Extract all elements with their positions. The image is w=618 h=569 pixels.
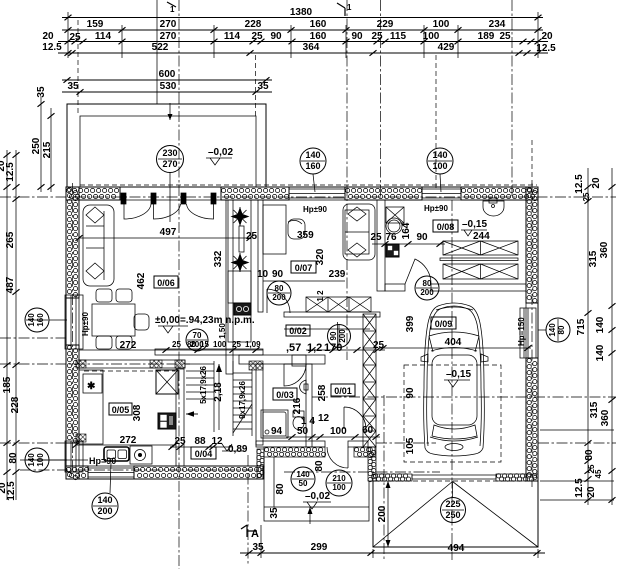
svg-text:140: 140: [548, 323, 557, 337]
svg-text:100: 100: [433, 19, 450, 30]
svg-text:25: 25: [172, 340, 181, 349]
svg-text:228: 228: [245, 19, 262, 30]
svg-text:100: 100: [36, 453, 45, 467]
interior wall bath west x256: [256, 364, 263, 445]
svg-text:0/06: 0/06: [157, 278, 175, 288]
svg-text:2,18: 2,18: [213, 382, 224, 402]
0/08 washer: [386, 207, 404, 223]
0/08 stove dark: [386, 244, 399, 257]
dining table: [92, 289, 149, 349]
left ticks top: [4, 152, 11, 158]
porch platform: [264, 456, 369, 521]
svg-text:–0,15: –0,15: [446, 369, 471, 380]
roof canopy rect: [373, 481, 538, 547]
plant top: [231, 207, 250, 226]
svg-text:229: 229: [377, 19, 394, 30]
right connector lines: [540, 429, 614, 431]
bath washbasin: [300, 380, 308, 394]
svg-text:170: 170: [324, 342, 342, 354]
row2 ticks: [65, 27, 72, 33]
svg-text:12: 12: [211, 436, 223, 447]
interior wall kitchen partition x226: [226, 200, 233, 374]
svg-text:0/02: 0/02: [289, 326, 307, 336]
svg-text:360: 360: [599, 241, 610, 258]
dim line y350 right part: [306, 349, 385, 351]
svg-text:5x17,9x26: 5x17,9x26: [199, 366, 208, 404]
svg-text:497: 497: [160, 227, 177, 238]
svg-text:225: 225: [445, 499, 460, 509]
axis horizontal y443 left: [0, 442, 66, 444]
svg-text:94: 94: [271, 426, 283, 437]
svg-text:234: 234: [489, 19, 506, 30]
svg-text:25: 25: [251, 31, 263, 42]
axis vertical x512: [511, 0, 513, 196]
window circle 140/160 left: [25, 308, 49, 332]
svg-text:270: 270: [162, 159, 177, 169]
svg-text:–0,02: –0,02: [208, 147, 233, 158]
window 140/160 in left wall: [65, 295, 83, 349]
svg-text:80: 80: [557, 325, 566, 334]
svg-text:308: 308: [132, 404, 143, 421]
axis horizontal y338 left: [0, 337, 66, 339]
interior wall corridor y329: [284, 328, 370, 330]
svg-text:0/09: 0/09: [435, 319, 453, 329]
kitchen dim 272: [75, 444, 176, 446]
left wall axis x72.5: [72, 183, 74, 470]
room 0/05 label: [109, 403, 132, 415]
svg-text:Hp±90: Hp±90: [81, 311, 90, 336]
top wall axis y197: [0, 196, 616, 198]
svg-text:270: 270: [160, 31, 177, 42]
svg-text:20: 20: [42, 31, 54, 42]
svg-text:12.5: 12.5: [42, 42, 62, 53]
bath door arc: [284, 364, 306, 386]
svg-text:364: 364: [303, 42, 320, 53]
kitchen counter left: [79, 370, 103, 444]
svg-text:140: 140: [595, 344, 606, 361]
svg-text:100: 100: [213, 340, 227, 349]
top dimension chain lines: [62, 17, 543, 19]
svg-text:80: 80: [8, 452, 19, 464]
room 0/02 label: [286, 325, 310, 336]
svg-text:88: 88: [194, 436, 206, 447]
window circle 140/80 right: [546, 318, 570, 342]
door circle 90/200 corridor: [328, 325, 351, 348]
svg-text:12.5: 12.5: [6, 481, 17, 501]
entry wall segment left of door: [265, 448, 326, 457]
svg-text:210: 210: [332, 474, 346, 483]
svg-text:258: 258: [317, 384, 328, 401]
witness lines top: [67, 12, 69, 58]
door circle 80/200 hall-garage: [354, 295, 356, 297]
bottom wall kitchen side (dot hatched): [67, 467, 89, 477]
stairs walk line arrow: [216, 364, 222, 430]
interior wall kitchen/stairs x176: [176, 369, 184, 466]
svg-text:299: 299: [311, 542, 328, 553]
svg-text:,57: ,57: [286, 342, 301, 354]
svg-text:114: 114: [224, 31, 241, 42]
svg-text:140: 140: [296, 470, 310, 479]
0/08 shelving row2: [443, 264, 518, 279]
axis horizontal y472 porch: [20, 469, 263, 471]
svg-text:20: 20: [591, 177, 602, 189]
door circle 80/200 (0/07): [267, 281, 291, 305]
window 140/160 in top wall: [289, 189, 345, 198]
svg-text:332: 332: [213, 250, 224, 267]
car top view: [421, 303, 488, 456]
svg-text:70: 70: [193, 331, 202, 340]
roof dim 200 rotated: [387, 481, 389, 547]
svg-text:100: 100: [330, 426, 347, 437]
terrace level circle 230/270: [157, 146, 184, 173]
svg-text:0/01: 0/01: [334, 386, 352, 396]
roof hip diagonals: [373, 482, 538, 548]
svg-text:100: 100: [423, 31, 440, 42]
kitchen bottom counter dark unit: [104, 446, 152, 464]
svg-text:522: 522: [152, 42, 169, 53]
garage dashed floor zone: [404, 365, 501, 462]
window circle 140/100 top wall: [427, 148, 453, 174]
0/08 washbasin top: [483, 198, 504, 216]
hall dim line y437: [286, 436, 380, 438]
witness dash x78: [77, 20, 79, 116]
svg-text:25: 25: [69, 32, 81, 43]
corner hatch block left wall bottom: [76, 434, 86, 442]
room 0/08 label: [433, 220, 458, 232]
svg-text:239: 239: [329, 269, 346, 280]
svg-text:9x17,9x26: 9x17,9x26: [238, 381, 247, 419]
svg-text:0/08: 0/08: [437, 222, 455, 232]
dining dim 272: [79, 349, 155, 351]
svg-text:–0,15: –0,15: [462, 219, 487, 230]
sofa living left wall: [83, 205, 114, 286]
svg-text:35: 35: [36, 86, 47, 98]
svg-text:160: 160: [305, 161, 320, 171]
witness dash x532: [531, 140, 533, 200]
porch step connector wall: [257, 450, 264, 478]
arrow into kitchen: [186, 413, 198, 415]
interior wall bath east x306: [306, 364, 312, 447]
svg-text:494: 494: [448, 543, 465, 554]
svg-text:25: 25: [371, 31, 383, 42]
svg-text:200: 200: [377, 505, 388, 522]
porch step line: [273, 457, 275, 507]
row3 ticks: [65, 39, 72, 45]
svg-text:315: 315: [589, 401, 600, 418]
right exterior wall (dot hatched): [527, 188, 537, 303]
top wall outline: [66, 186, 538, 188]
window circle 140/200 bottom kitchen: [92, 493, 118, 519]
axis horizontal y365 left: [0, 363, 190, 365]
chimney shaft X box: [156, 370, 178, 394]
room 0/06 label: [154, 276, 178, 288]
svg-text:0/04: 0/04: [195, 449, 213, 459]
svg-text:12: 12: [318, 413, 330, 424]
arrow at terrace top center: [169, 103, 171, 120]
room 0/01 label: [331, 384, 355, 396]
svg-text:160: 160: [310, 31, 327, 42]
0/08 round sink: [386, 218, 402, 234]
svg-text:90: 90: [405, 387, 416, 399]
0/07 sofa right: [343, 204, 375, 260]
interior wall 0/08 south y284: [385, 284, 405, 291]
stairs flight 1 treads: [186, 361, 214, 432]
0/07 dim 239: [263, 280, 345, 282]
svg-text:140: 140: [305, 150, 320, 160]
window 140/100 in top wall: [422, 189, 461, 198]
svg-text:Hp=150: Hp=150: [517, 317, 526, 346]
svg-text:164: 164: [401, 222, 412, 239]
terrace outer outline: [67, 104, 266, 187]
svg-text:12.5: 12.5: [574, 174, 585, 194]
svg-text:1: 1: [347, 3, 352, 12]
svg-text:140: 140: [27, 453, 36, 467]
svg-text:185: 185: [2, 376, 13, 393]
svg-text:50: 50: [299, 479, 308, 488]
window circle 140/200 top wall: [300, 148, 326, 174]
svg-text:1380: 1380: [290, 7, 313, 18]
axis vertical x452 garage center: [451, 200, 453, 560]
room 0/09 label: [431, 317, 456, 329]
svg-text:25: 25: [370, 232, 382, 243]
svg-text:272: 272: [120, 435, 137, 446]
section marker A bottom: [247, 525, 257, 537]
kitchen side sink dark unit: [158, 413, 176, 429]
svg-text:228: 228: [10, 396, 21, 413]
svg-text:Hp±90: Hp±90: [303, 205, 328, 214]
svg-text:1,50: 1,50: [218, 323, 227, 339]
svg-text:160: 160: [310, 19, 327, 30]
garage west exterior wall stub: [368, 448, 376, 482]
svg-text:±0,00=.94,23m n.p.m.: ±0,00=.94,23m n.p.m.: [155, 315, 255, 326]
svg-text:35: 35: [67, 81, 79, 92]
section mark at axis x179 top: [167, 2, 176, 7]
svg-text:270: 270: [160, 19, 177, 30]
svg-text:25: 25: [246, 231, 258, 242]
svg-text:Hp±90: Hp±90: [424, 204, 449, 213]
terrace chains: [40, 96, 42, 192]
svg-text:250: 250: [31, 137, 42, 154]
bath south thin wall: [256, 441, 325, 447]
row4 ticks: [65, 50, 72, 56]
svg-text:100: 100: [332, 483, 346, 492]
svg-text:35: 35: [252, 542, 264, 553]
terrace inner slab: [80, 116, 256, 187]
svg-text:60: 60: [362, 425, 374, 436]
svg-text:90: 90: [416, 232, 428, 243]
svg-text:105: 105: [405, 437, 416, 454]
svg-text:200: 200: [338, 329, 347, 343]
svg-text:80: 80: [275, 284, 284, 293]
entry wall segment right of door: [355, 448, 374, 457]
window 140/200 in bottom wall: [88, 468, 134, 477]
garage door leaf: [412, 475, 496, 479]
svg-text:265: 265: [5, 231, 16, 248]
svg-text:140: 140: [432, 150, 447, 160]
svg-text:140: 140: [27, 313, 36, 327]
row1 ticks: [65, 15, 72, 21]
section A marker top: [337, 3, 345, 16]
bath WC: [293, 411, 304, 430]
svg-text:A: A: [251, 528, 259, 540]
window circle 100/140 left: [25, 448, 49, 472]
door leaf corridor: [267, 289, 290, 313]
witness solid x157: [156, 0, 158, 104]
svg-text:–0,02: –0,02: [305, 491, 330, 502]
left chain vertical lines: [6, 150, 8, 500]
svg-text:159: 159: [87, 19, 104, 30]
svg-text:530: 530: [160, 81, 177, 92]
svg-text:487: 487: [5, 276, 16, 293]
porch arrow: [309, 507, 311, 524]
interior wall living south y349: [155, 349, 263, 355]
svg-text:25: 25: [499, 31, 511, 42]
niche below 0/02: [292, 355, 306, 366]
right ticks chain1: [585, 184, 592, 190]
svg-text:200: 200: [97, 506, 112, 516]
witness dash x436: [435, 55, 437, 188]
svg-text:20: 20: [586, 486, 597, 498]
svg-text:360: 360: [600, 409, 611, 426]
right ticks chain2: [609, 184, 616, 190]
svg-text:250: 250: [445, 510, 460, 520]
plant bottom: [231, 253, 250, 272]
axis vertical x347: [346, 0, 348, 360]
svg-text:315: 315: [588, 250, 599, 267]
roof pitch circle 225/250: [441, 498, 466, 523]
svg-text:320: 320: [315, 248, 326, 265]
0/08 shelving row1: [440, 241, 518, 261]
svg-text:0/05: 0/05: [112, 405, 130, 415]
svg-text:429: 429: [438, 42, 455, 53]
svg-text:462: 462: [136, 272, 147, 289]
wall 0/06|0/07 x258: [258, 200, 263, 312]
terrace dim 530: [62, 91, 272, 93]
svg-text:200: 200: [272, 293, 286, 302]
terrace dim 600: [62, 79, 272, 81]
svg-text:80: 80: [584, 449, 595, 461]
right chain vertical lines: [587, 168, 589, 505]
room 0/07 label: [291, 261, 316, 273]
0/08 dim row 25 76: [372, 243, 445, 245]
svg-text:140: 140: [595, 316, 606, 333]
svg-text:114: 114: [95, 31, 112, 42]
svg-text:189: 189: [478, 31, 495, 42]
corridor wardrobe X row: [306, 297, 371, 312]
svg-text:80: 80: [314, 460, 325, 472]
bath shower: [261, 410, 288, 438]
svg-text:1: 1: [170, 5, 175, 14]
bottom witness lines: [247, 455, 249, 564]
0/07 desk: [263, 205, 305, 254]
door circle 70/200 kitchen: [186, 329, 208, 351]
svg-text:244: 244: [473, 231, 490, 242]
interior wall living/kitchen horizontal: [79, 360, 185, 368]
svg-text:0/07: 0/07: [295, 263, 313, 273]
svg-text:90: 90: [270, 31, 282, 42]
roof overhang dashed line above top wall: [80, 184, 537, 186]
living dim 497: [79, 237, 250, 239]
svg-text:140: 140: [97, 495, 112, 505]
interior wall 0/08 west x377: [377, 200, 385, 291]
svg-text:35: 35: [269, 507, 280, 519]
door circle 210/100: [326, 470, 352, 496]
axis vertical x179: [178, 0, 180, 569]
svg-text:200: 200: [420, 288, 434, 297]
entry door arc: [327, 447, 348, 468]
svg-text:80: 80: [423, 279, 432, 288]
svg-text:12.5: 12.5: [5, 162, 16, 182]
garage south wall right segment: [497, 474, 537, 481]
right wall axis x532: [531, 183, 533, 487]
svg-text:115: 115: [390, 31, 407, 42]
room 0/03 label: [273, 388, 297, 400]
left exterior wall (dot hatched): [67, 188, 77, 297]
window Hp150 in right wall: [520, 308, 536, 358]
room 0/04 label: [191, 447, 216, 459]
svg-text:715: 715: [576, 318, 587, 335]
svg-text:399: 399: [405, 315, 416, 332]
svg-text:90: 90: [351, 31, 363, 42]
interior wall 0/07 strip south y312: [284, 312, 380, 317]
svg-text:404: 404: [445, 337, 462, 348]
svg-text:90: 90: [329, 331, 338, 340]
axis vertical x384: [383, 395, 385, 560]
svg-text:216: 216: [292, 397, 303, 414]
corridor dim line y350: [155, 349, 263, 351]
window 140/100 in left wall: [65, 441, 83, 472]
svg-text:✱: ✱: [87, 381, 96, 392]
garage dim 404: [380, 347, 531, 349]
axis vertical x380: [380, 0, 382, 197]
stairs flight 2 treads: [233, 361, 252, 436]
svg-text:80: 80: [275, 483, 286, 495]
svg-text:25: 25: [373, 340, 385, 351]
kitchen tall cabinet column: [228, 200, 251, 342]
bottom dim line: [240, 552, 545, 554]
terrace french doors arcs: [121, 193, 216, 219]
kitchen sink unit dark: [234, 303, 251, 315]
svg-text:230: 230: [162, 148, 177, 158]
svg-text:200: 200: [190, 340, 204, 349]
svg-text:35: 35: [257, 81, 269, 92]
svg-text:20: 20: [541, 31, 553, 42]
garage door from hall arc: [344, 407, 366, 429]
interior wall hall south y355: [239, 355, 325, 364]
svg-text:100: 100: [432, 161, 447, 171]
svg-text:160: 160: [36, 313, 45, 327]
svg-text:600: 600: [159, 69, 176, 80]
axis horizontal y397 right: [312, 396, 616, 398]
svg-text:215: 215: [42, 141, 53, 158]
svg-text:12.5: 12.5: [536, 43, 556, 54]
svg-text:25: 25: [582, 192, 591, 201]
door circle 80/200 (0/08): [415, 276, 439, 300]
top exterior wall segments (dot hatched): [67, 188, 119, 198]
svg-text:90: 90: [272, 269, 284, 280]
witness dash x255: [255, 55, 257, 116]
svg-text:45: 45: [594, 469, 603, 478]
door circle 140/50: [291, 467, 315, 491]
garage south wall left segment: [374, 474, 411, 481]
garage west interior wall (crosshatch): [363, 314, 376, 447]
